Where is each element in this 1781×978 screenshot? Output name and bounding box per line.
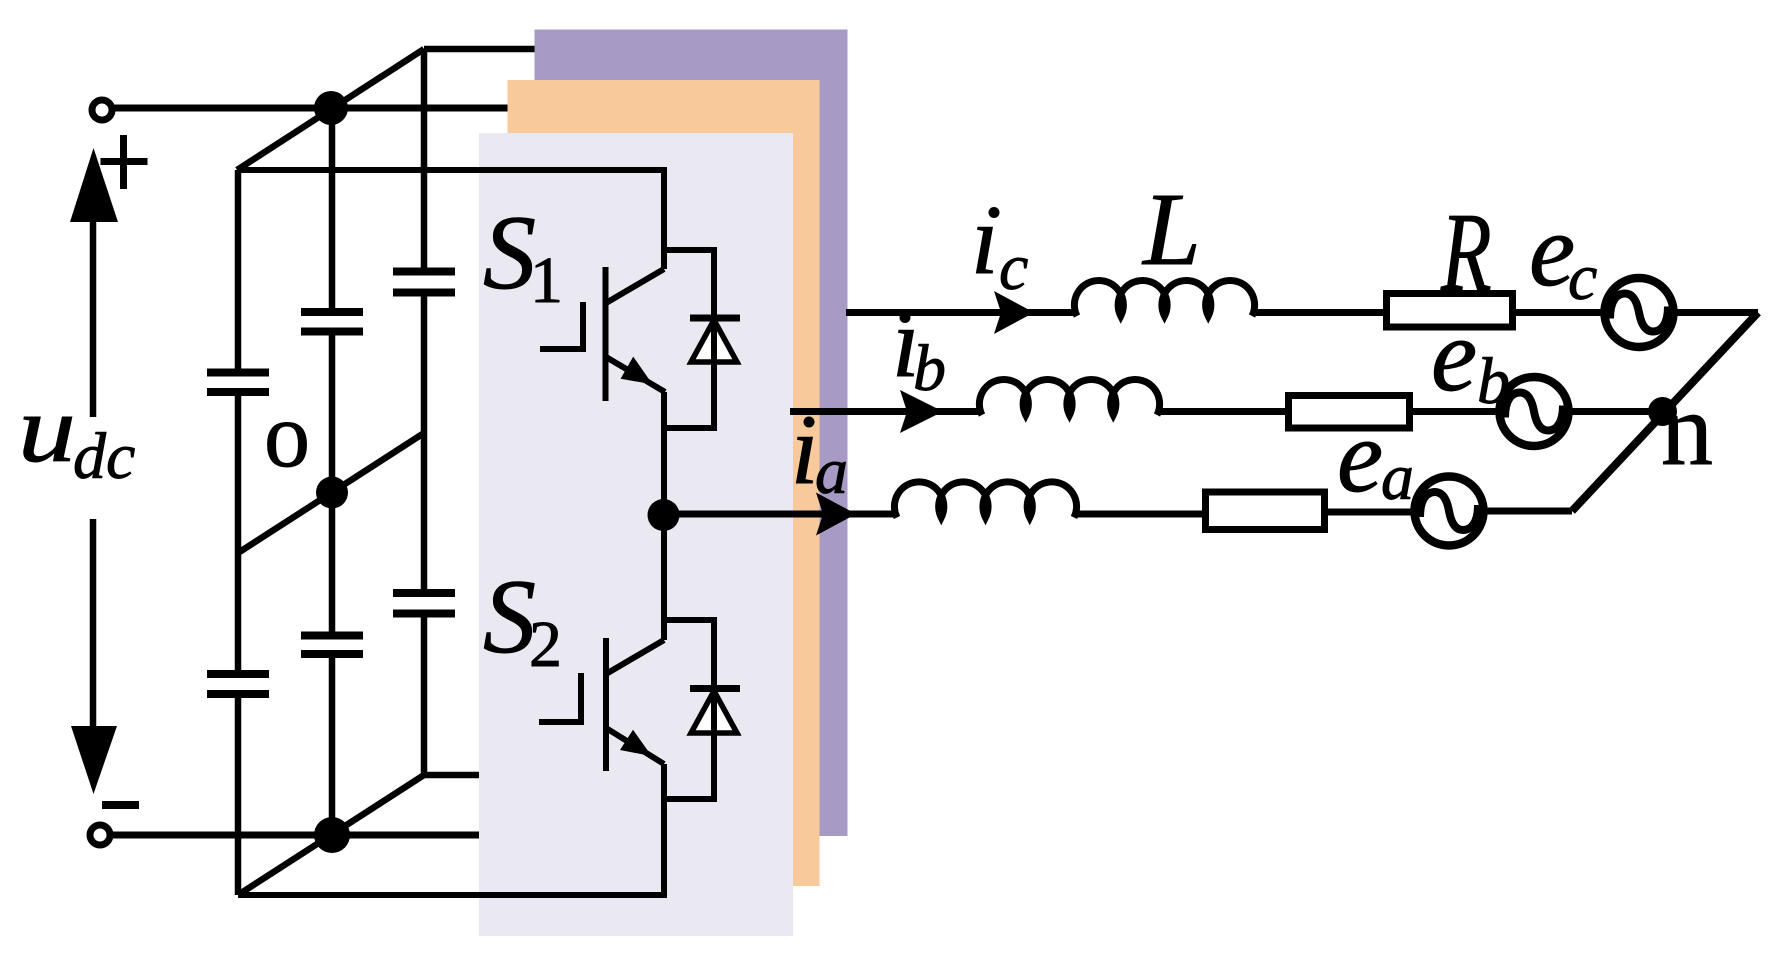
svg-text:1: 1 [530, 244, 563, 317]
inductor L phase c [1074, 280, 1254, 316]
svg-text:e: e [1337, 399, 1383, 514]
transistor S1 bar [603, 267, 609, 401]
wire phase c output [846, 309, 1077, 316]
svg-text:n: n [1661, 372, 1713, 487]
svg-text:b: b [1477, 345, 1510, 418]
wire bottom perspective diagonal [238, 775, 424, 895]
diode D1 cathode bar [690, 315, 740, 322]
wire neutral return diagonal [1572, 313, 1758, 512]
source e_b circle [1500, 377, 1569, 446]
diode D2 connection wire [664, 620, 714, 799]
wire phase a resistor to source [1328, 509, 1415, 516]
svg-text:a: a [1381, 441, 1414, 514]
wire middle dc leg middle [329, 332, 336, 636]
resistor R phase b [1289, 396, 1410, 429]
wire phase b source to node n [1568, 408, 1662, 415]
node junction dot DC+ [314, 91, 348, 125]
wire back dc leg lower [421, 614, 428, 776]
source e_c circle [1605, 278, 1674, 347]
wire phase c resistor to source [1516, 309, 1605, 316]
u_dc voltage arrow shaft lower [90, 519, 97, 730]
node a junction dot [648, 499, 680, 531]
resistor R phase a [1206, 492, 1325, 530]
source e_a sine [1420, 492, 1478, 530]
wire phase b resistor to source [1413, 408, 1500, 415]
transistor S1 collector slant [606, 269, 664, 303]
wire midpoint o diagonal [238, 433, 424, 553]
source e_b sine [1505, 393, 1563, 431]
svg-text:ı: ı [971, 184, 999, 295]
svg-text:a: a [815, 435, 848, 508]
wire S1 emitter to node a [661, 392, 667, 515]
wire phase c inductor to resistor [1252, 309, 1383, 316]
wire middle bottom rail (DC- to phase b) [111, 832, 479, 839]
u_dc voltage arrow shaft upper [90, 220, 97, 417]
transistor S1 emitter slant [606, 357, 665, 392]
wire node a to S2 collector [661, 515, 667, 640]
svg-text:2: 2 [529, 608, 562, 681]
phase-b panel (middle, orange) [508, 80, 820, 886]
diode D2 triangle [691, 691, 737, 733]
minus sign [102, 801, 139, 809]
plus sign [101, 135, 148, 189]
wire back dc leg upper [421, 49, 428, 272]
capacitor front lower [207, 674, 269, 694]
arrow i_a [816, 493, 856, 536]
capacitor back lower [393, 593, 455, 614]
svg-text:o: o [264, 384, 310, 486]
wire back bottom rail (DC- to phase c) [424, 772, 481, 779]
arrow i_c [994, 291, 1034, 334]
svg-text:u: u [18, 377, 76, 482]
terminal DC- [90, 825, 110, 845]
wire phase c source to corner [1673, 309, 1758, 316]
svg-text:S: S [483, 194, 536, 311]
wire S2 emitter to bottom rail [238, 764, 664, 895]
capacitor back upper [393, 272, 455, 293]
resistor R phase c [1387, 294, 1513, 328]
svg-text:R: R [1440, 191, 1491, 315]
source e_a circle [1415, 477, 1484, 546]
wire middle dc leg upper [329, 108, 336, 312]
wire front dc leg lower [235, 694, 242, 895]
phase-a panel (front, lavender) [479, 133, 793, 936]
wire phase b inductor to resistor [1157, 408, 1285, 415]
wire phase a inductor to resistor [1074, 511, 1202, 518]
phase-c panel (back, purple) [535, 30, 848, 837]
diode D1 triangle [691, 320, 737, 362]
capacitor middle upper [301, 312, 363, 332]
u_dc arrowhead down [71, 726, 117, 794]
inductor L phase b [979, 379, 1159, 415]
transistor S2 emitter slant [606, 728, 664, 764]
transistor S2 emitter arrow [620, 730, 652, 756]
wire middle top rail (DC+ to phase b) [111, 105, 508, 112]
transistor S2 collector slant [606, 640, 664, 674]
transistor S2 gate lead [539, 673, 581, 722]
svg-text:e: e [1431, 298, 1477, 413]
svg-text:dc: dc [73, 420, 135, 493]
svg-text:c: c [999, 231, 1028, 304]
node junction dot o midpoint [316, 477, 348, 509]
capacitor front upper [207, 373, 269, 393]
wire top perspective diagonal [237, 49, 424, 170]
transistor S2 bar [603, 638, 609, 771]
diode D2 cathode bar [690, 685, 740, 692]
svg-text:c: c [1568, 241, 1597, 314]
wire phase a source to corner [1480, 508, 1572, 515]
wire back top rail (DC+ to phase c) [424, 46, 537, 53]
arrow i_b [900, 390, 943, 433]
node n junction dot [1648, 397, 1677, 426]
wire back dc leg middle [421, 293, 428, 594]
wire front dc leg upper [235, 170, 242, 373]
terminal DC+ [92, 100, 112, 120]
node junction dot DC- [314, 817, 350, 853]
svg-text:L: L [1141, 172, 1201, 287]
source e_c sine [1610, 294, 1668, 332]
transistor S1 emitter arrow [621, 357, 653, 385]
wire phase b output [790, 408, 982, 415]
u_dc arrowhead up [70, 148, 118, 222]
wire middle dc leg lower [329, 654, 336, 835]
svg-text:b: b [913, 332, 946, 405]
transistor S1 gate lead [540, 302, 583, 349]
diode D1 connection wire [664, 250, 714, 428]
capacitor middle lower [301, 636, 363, 655]
wire phase a output [664, 511, 897, 518]
wire front top rail (DC+ to S1 collector) [237, 170, 664, 269]
inductor L phase a [894, 482, 1076, 518]
wire front dc leg middle [235, 392, 242, 674]
